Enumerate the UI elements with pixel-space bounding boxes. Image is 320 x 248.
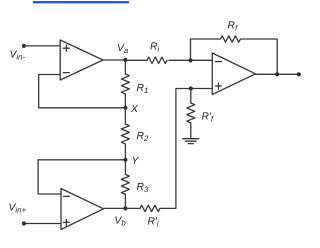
wire Va down to R1: [124, 60, 126, 74]
wire R3 to node Vb: [124, 194, 126, 208]
node Va: [123, 58, 127, 62]
resistor R'i: [140, 205, 160, 211]
wire junction down to R'f: [190, 89, 192, 104]
junction output / Rf: [275, 72, 279, 76]
svg-text:Vin+: Vin+: [9, 203, 27, 215]
blue underline: [33, 1, 129, 3]
svg-text:R3: R3: [137, 182, 149, 194]
svg-text:Vin-: Vin-: [10, 50, 26, 62]
node output terminal: [297, 72, 301, 76]
wire Y down to R3: [124, 160, 126, 175]
resistor Rf: [221, 36, 241, 42]
wire R2 to node Y: [124, 144, 126, 160]
wire Rf loop left leg: [190, 39, 192, 60]
ground: [183, 139, 199, 144]
node Y: [123, 158, 127, 162]
resistor R'f: [187, 103, 195, 123]
wire Vb to resistor R'i: [125, 207, 140, 209]
wire R'f to ground: [190, 123, 192, 138]
svg-text:Rf: Rf: [228, 21, 238, 33]
svg-text:Va: Va: [117, 43, 129, 55]
wire Vin- to op-amp U1 + input: [24, 45, 60, 47]
node Vin+ terminal: [22, 221, 26, 225]
wire U1 feedback: - input left, down, to node X: [39, 75, 123, 108]
svg-text:R′i: R′i: [148, 217, 159, 229]
op-amp U2: [61, 189, 104, 230]
svg-text:R1: R1: [137, 83, 149, 95]
wire Va to resistor Ri: [125, 59, 147, 61]
wire Rf top right segment, down to output: [242, 39, 278, 74]
wire Rf top left segment: [191, 38, 221, 40]
op-amp U3: [212, 53, 255, 95]
svg-text:X: X: [130, 104, 139, 115]
wire Vin+ to op-amp U2 + input: [24, 223, 61, 225]
svg-text:R2: R2: [137, 131, 149, 143]
wire U2 feedback: node Y left, down, to - input: [38, 160, 123, 194]
wire X down to R2: [124, 108, 126, 124]
junction dot + input / R'f: [189, 86, 193, 90]
resistor R3: [121, 174, 129, 194]
node U3 - input / Rf tap: [188, 58, 192, 62]
op-amp U1: [60, 40, 103, 80]
wire R'i right, up to U3 + input: [160, 89, 212, 209]
node X: [123, 106, 127, 110]
node Vb: [123, 206, 127, 210]
wire Ri to U3 - input: [169, 59, 212, 61]
svg-text:Ri: Ri: [150, 42, 159, 54]
wire R1 to node X: [124, 94, 126, 108]
svg-text:Vb: Vb: [115, 216, 127, 228]
wire U3 output: [256, 73, 299, 75]
resistor Ri: [147, 57, 167, 63]
svg-text:R′f: R′f: [202, 112, 214, 124]
svg-text:Y: Y: [132, 156, 140, 167]
wire U2 output to node Vb: [104, 207, 126, 209]
resistor R1: [121, 74, 129, 94]
resistor R2: [121, 124, 129, 144]
node Vin- terminal: [22, 44, 26, 48]
wire U1 output to node Va: [103, 59, 125, 61]
